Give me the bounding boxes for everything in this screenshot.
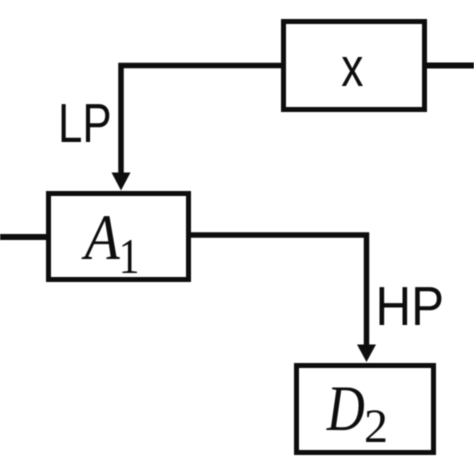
label x [342,57,363,86]
block X [284,22,425,110]
arrowhead into A1 [112,173,131,191]
label HP [380,287,442,325]
label A1 [82,216,120,259]
arrowhead into D2 [357,345,376,363]
block D2 [297,366,434,453]
label LP [62,104,110,142]
block A1 [49,194,189,280]
wire HP elbow from A1 output down to D2 [191,235,367,347]
label D2 [326,387,364,430]
wire from X output right to edge [427,63,474,69]
wire input into A1 from left edge [0,234,46,240]
wire LP elbow from X input down to A1 [121,66,281,177]
